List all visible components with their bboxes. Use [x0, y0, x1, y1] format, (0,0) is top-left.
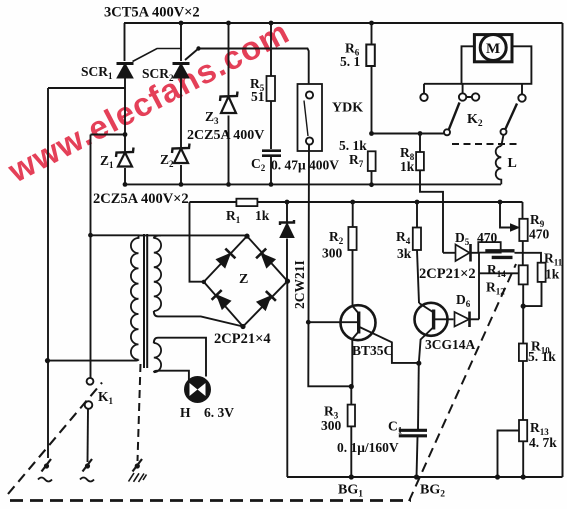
- wire K2 feed rail y133.5: [372, 133, 445, 135]
- node rail junctions: [123, 182, 503, 204]
- resistor R11: [523, 263, 545, 306]
- wire YDK coil down to R3 corner: [308, 145, 351, 387]
- diode bridge bottom-left: [212, 290, 232, 310]
- resistor R7: [368, 151, 376, 184]
- wire R1 left drop to bridge: [190, 202, 204, 282]
- AC tilde pole1: [38, 478, 52, 482]
- svg-text:300: 300: [322, 246, 343, 261]
- svg-text:Z: Z: [239, 272, 248, 287]
- resistor R1: [236, 199, 257, 206]
- diode bridge top-left: [216, 249, 236, 269]
- switch K1 dashed linkage: [8, 383, 102, 495]
- wire Z3 column: [228, 23, 230, 184]
- svg-text:R2: R2: [329, 229, 344, 246]
- relay coil YDK: [298, 84, 323, 151]
- lamp H: [185, 377, 210, 402]
- svg-text:R4: R4: [396, 229, 411, 246]
- svg-text:5. 1k: 5. 1k: [528, 349, 556, 364]
- wire R12 to node: [522, 284, 524, 306]
- diode Z1: [116, 148, 134, 167]
- transformer T core: [144, 234, 147, 368]
- svg-text:0. 1μ/160V: 0. 1μ/160V: [337, 440, 399, 455]
- svg-text:M: M: [486, 41, 500, 57]
- svg-text:2CP21×4: 2CP21×4: [214, 331, 271, 347]
- terminal pole3 ground: [129, 459, 147, 482]
- wire K2 fixed contact stub left: [424, 84, 462, 94]
- transistor 3CG14A: [415, 303, 454, 363]
- wire K1 pole2 rail x90: [90, 135, 92, 378]
- svg-text:R14: R14: [487, 262, 506, 279]
- svg-text:1k: 1k: [255, 208, 270, 223]
- svg-text:3k: 3k: [397, 246, 412, 261]
- transformer secondary winding lower: [154, 338, 206, 398]
- wire earth pole dashed: [138, 364, 141, 461]
- diode bridge top-right: [256, 249, 276, 269]
- watermark www.elecfans.com: [1, 13, 294, 189]
- wire D6 cathode riser x479: [478, 253, 480, 319]
- capacitor C1: [399, 363, 427, 477]
- contact K2 circles: [420, 93, 525, 101]
- svg-text:SCR1: SCR1: [81, 64, 113, 81]
- node R3 top junction: [349, 384, 354, 389]
- svg-text:470: 470: [529, 227, 550, 242]
- svg-text:K1: K1: [98, 389, 114, 406]
- svg-text:51: 51: [251, 89, 265, 104]
- svg-text:Z1: Z1: [100, 153, 114, 170]
- wire x48 to SCR1 column: [48, 87, 125, 89]
- svg-text:BT35C: BT35C: [352, 343, 393, 358]
- svg-text:Z3: Z3: [205, 109, 219, 126]
- svg-text:5. 1: 5. 1: [340, 54, 361, 69]
- resistor R8: [416, 134, 443, 253]
- svg-text:1k: 1k: [400, 159, 415, 174]
- switch K1 pivot: [85, 401, 93, 409]
- svg-text:Z2: Z2: [160, 152, 174, 169]
- resistor R10: [519, 306, 527, 420]
- diode bridge bottom-right: [256, 291, 276, 311]
- svg-text:R1: R1: [226, 208, 241, 225]
- svg-text:300: 300: [321, 418, 342, 433]
- svg-text:C2: C2: [251, 156, 266, 173]
- diode Z2: [172, 144, 190, 164]
- capacitor plates right of R14: [485, 249, 514, 252]
- node Z1 top junction: [123, 132, 128, 137]
- svg-text:D5: D5: [455, 230, 470, 247]
- resistor R12: [519, 265, 528, 284]
- svg-text:5. 1k: 5. 1k: [339, 138, 367, 153]
- svg-text:2CP21×2: 2CP21×2: [419, 266, 476, 282]
- node primary bottom junction: [45, 358, 50, 363]
- capacitor C2: [262, 151, 281, 185]
- svg-text:R12: R12: [486, 280, 505, 297]
- wire bridge right column down to bottom rail: [286, 281, 288, 477]
- potentiometer R9: [500, 202, 528, 265]
- resistor R2: [348, 202, 356, 306]
- resistor R3: [348, 387, 355, 478]
- wire trigger rail y202: [190, 201, 523, 203]
- svg-text:R7: R7: [349, 152, 364, 169]
- AC tilde pole2: [80, 478, 94, 482]
- node R11/R12 junction: [521, 304, 526, 309]
- svg-text:L: L: [508, 156, 517, 171]
- svg-text:K2: K2: [467, 112, 483, 129]
- wire K2 linkage dashed: [452, 143, 518, 145]
- wire SCR1 column: [124, 23, 127, 184]
- zener 2CW211: [280, 202, 294, 282]
- wire contact stubs: [463, 84, 522, 97]
- thyristor SCR1: [117, 49, 182, 79]
- wire R12 tap: [479, 272, 519, 274]
- inductor L: [496, 135, 504, 185]
- node emitter junction: [416, 361, 421, 366]
- rectifier bridge Z: [202, 234, 291, 330]
- wire dashed callout BG2: [409, 264, 516, 501]
- wire SCR2 column: [180, 23, 182, 184]
- svg-text:3CT5A 400V×2: 3CT5A 400V×2: [104, 5, 200, 21]
- switch K2 arm right: [501, 104, 518, 135]
- motor M: [474, 35, 512, 62]
- node top rail junctions: [179, 21, 374, 26]
- svg-text:C1: C1: [388, 419, 403, 436]
- node bottom rail junctions: [349, 474, 526, 479]
- svg-text:H 6. 3V: H 6. 3V: [180, 405, 234, 420]
- svg-text:470: 470: [477, 230, 498, 245]
- resistor R6: [366, 23, 375, 134]
- thyristor SCR2: [173, 46, 309, 84]
- terminal pole2: [83, 459, 93, 472]
- svg-text:2CW21I: 2CW21I: [292, 260, 307, 309]
- svg-text:D6: D6: [456, 292, 471, 309]
- svg-text:R11: R11: [544, 251, 563, 268]
- svg-text:BG1: BG1: [338, 483, 363, 500]
- node junctions y133.5: [369, 131, 422, 136]
- node BT35C base tap: [306, 320, 311, 325]
- resistor R4: [413, 202, 421, 303]
- wire AC rail y184: [125, 183, 501, 185]
- resistor R5: [267, 23, 276, 149]
- wire top supply rail: [124, 22, 563, 24]
- wire to R11: [515, 253, 542, 263]
- resistor R13: [498, 420, 528, 477]
- svg-text:0. 47μ 400V: 0. 47μ 400V: [271, 158, 339, 173]
- transformer secondary winding upper: [154, 235, 243, 326]
- svg-text:2CZ5A 400V×2: 2CZ5A 400V×2: [93, 191, 189, 207]
- wire bottom common rail: [287, 476, 563, 478]
- svg-text:1k: 1k: [545, 267, 560, 282]
- transformer primary winding: [48, 235, 139, 360]
- diode Z3: [220, 92, 238, 114]
- node primary tap: [88, 233, 93, 238]
- transistor BT35C: [308, 305, 419, 386]
- svg-text:2CZ5A 400V: 2CZ5A 400V: [187, 128, 264, 143]
- diode D6: [455, 312, 480, 328]
- svg-text:4. 7k: 4. 7k: [529, 435, 557, 450]
- resistor R14: [478, 242, 500, 253]
- wire K1 pole2 lower: [87, 409, 90, 462]
- wire x90 to Z1 junction: [91, 134, 126, 136]
- svg-text:3CG14A: 3CG14A: [425, 337, 476, 352]
- svg-text:YDK: YDK: [332, 101, 363, 116]
- switch K2 arm left: [444, 103, 460, 136]
- terminal pole1: [42, 459, 52, 472]
- wire bottom dashed boundary: [10, 499, 411, 502]
- wire right border: [562, 23, 564, 477]
- wire motor bracket: [462, 46, 532, 84]
- svg-text:BG2: BG2: [420, 483, 445, 500]
- diode D5: [443, 244, 478, 262]
- wire transformer secondary top rail: [139, 234, 248, 236]
- wire left rail x48: [47, 88, 49, 458]
